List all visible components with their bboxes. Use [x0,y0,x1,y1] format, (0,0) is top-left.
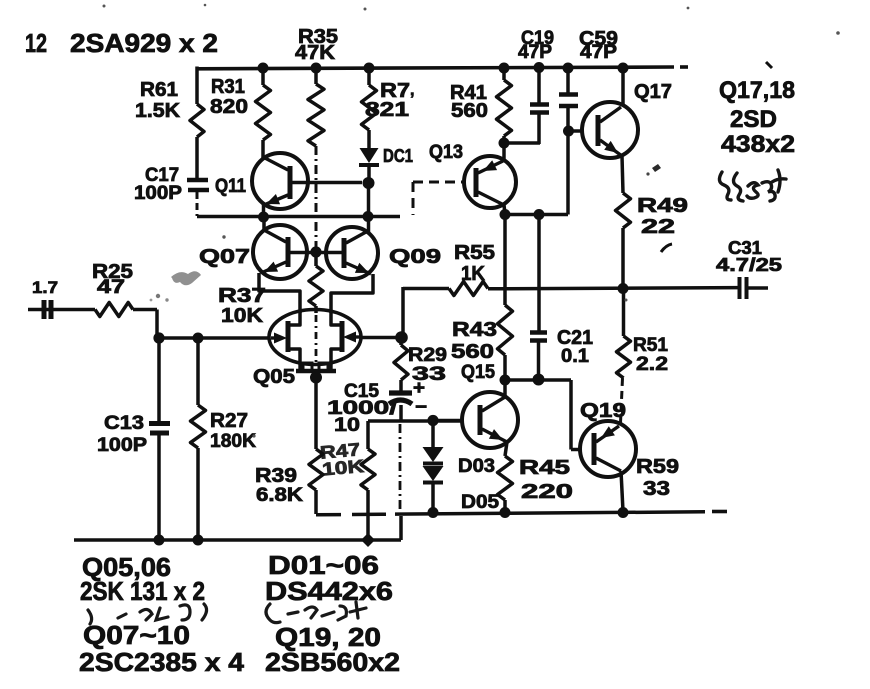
svg-text:2SA929 x 2: 2SA929 x 2 [70,28,218,58]
svg-text:D03: D03 [458,456,495,477]
diode D05 [423,466,444,481]
transistor Q05 right drain [331,312,340,325]
wire R61-C17 [195,137,199,178]
transistor Q09 collector [346,232,366,243]
node rail-R35 [311,63,322,74]
svg-text:R61: R61 [140,79,178,101]
transistor Q11 collector [263,157,288,170]
transistor Q19 body [580,421,636,477]
node row421-diodes [427,415,438,426]
svg-text:22: 22 [641,216,675,238]
wire Q11-emitter row [197,215,400,219]
resistor R51 [617,336,631,378]
svg-text:180K: 180K [210,431,256,452]
wire R27 top [196,338,200,405]
wire C21 row [505,378,571,382]
svg-text:Q13: Q13 [429,142,463,163]
svg-text:560: 560 [451,341,494,363]
svg-text:12: 12 [25,28,47,58]
svg-text:DC1: DC1 [383,146,413,166]
transistor Q15 emitter [482,429,507,442]
transistor Q11 body [252,153,308,209]
transistor Q15 base bar [478,405,483,435]
wire R47 bottom [366,490,370,540]
transistor Q09 emitter [346,263,371,274]
svg-text:R39: R39 [255,465,297,487]
resistor R61 [190,104,204,137]
node rail-R47 [361,533,375,547]
svg-text:1.5K: 1.5K [135,100,181,122]
wire gate line [159,336,270,340]
wire boundary dashdot [399,424,402,513]
wire R31-Q11 [261,140,265,159]
capacitor C31 [738,277,742,299]
transistor Q15 body [462,392,518,448]
wire R45 bottom [503,500,507,512]
transistor Q05 right source [331,349,340,365]
svg-text:2SC2385 x 4: 2SC2385 x 4 [79,647,245,677]
wire R51 top lead [622,288,626,336]
svg-text:47: 47 [97,277,125,298]
svg-text:Q19: Q19 [580,400,626,422]
svg-text:820: 820 [210,96,248,118]
connector input jack [28,308,95,312]
node DC1-Q11 base [363,177,375,189]
wire Q19 emitter lead [621,471,623,511]
wire R39 top [314,377,318,449]
wire C21 column [537,214,541,331]
node gate-R29-R55 [395,331,408,344]
wire DC1 node down [367,183,371,233]
wire Q17 collector lead [621,66,625,106]
wire Q19 base [569,380,573,450]
node input-C13 [153,332,164,343]
wire Q15 emitter lead [505,442,507,456]
transistor Q19 base bar [592,433,597,465]
wire Q11 base [292,181,362,185]
wire Q05 right gate lead [361,336,399,340]
wire Q07 base [290,251,313,255]
svg-text:2.2: 2.2 [636,354,668,375]
resistor R31 [261,68,265,85]
transistor Q13 emitter [478,192,504,205]
node output-R49 [618,283,629,294]
transistor Q13 base bar [474,168,479,197]
node row380-R43 [500,375,511,386]
transistor Q07 body [253,225,307,279]
wire R29-C15 [399,380,403,392]
wire DC1-node [367,165,371,183]
wire Q05 substrate dash [315,315,318,362]
transistor Q13 body [464,156,516,208]
svg-text:10K: 10K [321,456,365,480]
transistor Q09 body [326,227,378,279]
diode DC1 [360,148,379,163]
transistor Q05 right gate [343,332,356,343]
wire Q17 emitter lead [622,156,623,193]
transistor Q05 left channel [286,321,291,352]
wire Q09 base [319,251,342,255]
resistor R43 [498,305,513,355]
resistor R37 [314,252,318,266]
svg-text:DS442x6: DS442x6 [265,576,393,606]
transistor Q07 base bar [286,237,291,267]
wire C15 bottom [399,405,403,421]
svg-text:4.7/25: 4.7/25 [716,255,782,275]
svg-text:220: 220 [521,481,573,503]
wire output line [488,288,738,289]
transistor Q05 left drain [290,312,300,325]
capacitor C19 [537,66,541,103]
node V- R45 [500,507,511,518]
node V- diodes [428,507,439,518]
node rail-R31 [258,63,269,74]
svg-text:Q17,18: Q17,18 [719,77,795,104]
svg-text:2SD: 2SD [730,106,777,133]
wire Q09 emitter path [331,274,373,313]
resistor R33 [367,68,371,85]
wire R25-node [133,308,157,312]
wire R51-Q19 dashed [621,378,623,423]
node Q05 source [310,372,322,384]
svg-text:560: 560 [451,100,488,122]
svg-text:R43: R43 [452,319,497,341]
node R41-Q13 [499,138,510,149]
wire Q07 collector lead [262,217,266,230]
annotation smudge near R49 [652,164,661,172]
wire Q13-C59 row [505,213,568,217]
wire R39 bottom [314,490,318,514]
svg-text:100P: 100P [134,183,182,204]
node V- Q19 [618,507,629,518]
transistor Q05 body [269,310,361,365]
annotation tick below R49 [661,244,672,252]
svg-text:0.1: 0.1 [561,346,589,367]
svg-text:6.8K: 6.8K [256,485,303,506]
transistor Q15 collector [482,397,505,411]
svg-text:1K: 1K [461,263,486,285]
svg-text:R29: R29 [408,345,447,366]
svg-text:438x2: 438x2 [721,131,795,158]
svg-text:47K: 47K [295,42,336,64]
node input-R27 [193,333,204,344]
svg-text:R31: R31 [211,76,245,98]
capacitor C15 electrolytic [389,390,412,395]
svg-text:Q05: Q05 [253,366,295,388]
resistor R25 [95,303,133,317]
transistor Q19 collector [596,426,619,442]
svg-text:1.7: 1.7 [32,278,58,297]
wire bias dash-dot [315,146,318,247]
diode D03 [423,447,444,462]
node row380-C21 [533,374,545,386]
svg-text:R49: R49 [637,195,688,217]
resistor R47 [366,421,370,449]
svg-text:,: , [410,82,414,99]
wire diode bottom lead [431,483,435,512]
annotation legend scribble 1 [88,604,207,624]
node C-Q07 base [258,212,269,223]
wire Q17 base [568,129,583,133]
svg-text:Q15: Q15 [461,362,495,383]
resistor R45 [498,456,513,500]
transistor Q17 collector [600,107,621,122]
resistor R41 [502,68,506,80]
wire Q07 emitter path [259,273,300,313]
transistor Q11 emitter [264,195,288,205]
annotation specks [103,4,840,438]
svg-text:47P: 47P [518,42,552,63]
transistor Q11 base bar [288,166,293,199]
capacitor C21 [530,330,547,335]
svg-text:R51: R51 [633,335,668,356]
wire R49-output [621,228,625,289]
capacitor C59 [566,66,570,93]
svg-text:Q11: Q11 [215,176,246,197]
annotation legend scribble 2 [266,602,366,623]
transistor Q09 base bar [342,238,347,268]
svg-text:R27: R27 [210,410,248,432]
wire R27 bottom [196,448,200,540]
svg-text:Q07~10: Q07~10 [83,620,190,650]
transistor Q07 emitter [261,262,286,273]
transistor Q19 emitter [596,458,621,471]
wire R41-C19 link [504,141,540,145]
transistor Q17 base bar [596,115,601,146]
wire R43 bottom [503,355,507,380]
wire R33-DC1 [367,130,371,148]
wire C59 base column [566,131,570,215]
wire R43 column [503,214,507,305]
node rail-R41 [499,63,510,74]
node Q07-Q09 bases [310,246,321,257]
svg-text:100P: 100P [97,435,147,456]
svg-text:R59: R59 [636,456,679,478]
annotation tick top right [766,62,772,68]
svg-text:D05: D05 [461,492,499,513]
transistor Q05 source bracket [296,369,336,374]
svg-text:Q07: Q07 [199,246,250,268]
resistor R49 [616,193,631,228]
node rail-C59 [563,63,574,74]
annotation smudge left of Q07 [171,271,201,285]
wire Q13 emitter lead [504,205,505,214]
node Q09 collector row [363,211,374,222]
wire Q15 collector lead [503,380,507,397]
svg-text:R37: R37 [218,285,266,307]
resistor R39 [309,449,323,490]
node row-C21 [534,209,545,220]
svg-text:33: 33 [643,478,670,500]
capacitor C13 [149,421,170,426]
capacitor C17 [187,178,208,183]
svg-text:Q17: Q17 [634,81,672,103]
wire left column top [195,67,199,105]
resistor R35 [314,68,318,84]
node C59-Q17 base [563,126,574,137]
transistor Q05 left gate [274,333,287,344]
wire V- line [316,513,341,517]
node rail-C13 [154,535,165,546]
transistor Q05 left source [290,349,300,365]
svg-text:C13: C13 [104,413,144,434]
transistor Q05 right channel [340,321,345,352]
svg-text:10: 10 [334,415,360,436]
wire R55 corner [403,287,449,291]
svg-text:10K: 10K [221,305,264,327]
wire C13 bottom [157,435,161,540]
transistor Q07 collector [264,230,286,242]
wire bottom rail [74,538,401,542]
wire V+ top rail [197,67,674,69]
wire diode base row [368,419,463,423]
wire Q13 base dashed [413,181,464,184]
wire R41 bottom [502,136,506,161]
svg-text:Q09: Q09 [389,246,441,268]
wire Q15 base row covered above [433,419,462,423]
node rail-R33 [364,63,375,74]
wire Q11 emitter lead [262,204,266,216]
resistor R29 [399,337,403,345]
svg-text:2SB560x2: 2SB560x2 [265,647,400,677]
svg-text:821: 821 [365,99,409,121]
wire C13 top [157,338,161,422]
annotation handwriting LC347 [719,170,786,201]
transistor Q13 collector [478,161,503,173]
svg-text:47P: 47P [580,42,617,63]
node rail-Q17 [618,63,629,74]
transistor Q17 body [582,102,638,158]
node rail-R27 [193,535,204,546]
svg-text:R45: R45 [519,457,570,479]
resistor R27 [191,405,206,448]
transistor Q17 emitter [600,140,622,156]
node rail-C19 [534,62,545,73]
resistor R55 [449,282,488,296]
svg-text:−: − [415,397,427,418]
svg-text:2SK 131 x 2: 2SK 131 x 2 [80,576,205,606]
wire diode top lead [431,421,435,447]
wire C17 lower stub [196,192,199,216]
node row-R43 [500,209,511,220]
svg-text:R55: R55 [454,242,495,264]
svg-text:33: 33 [412,364,446,385]
